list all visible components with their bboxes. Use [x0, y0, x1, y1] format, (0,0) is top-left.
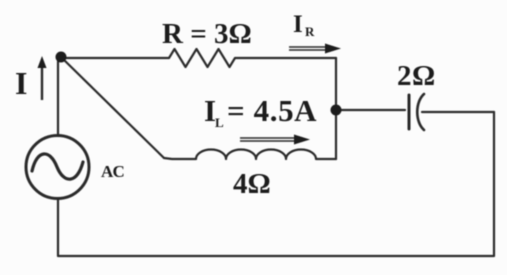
svg-text:4Ω: 4Ω — [233, 168, 271, 200]
svg-text:I: I — [293, 11, 303, 38]
svg-text:R = 3Ω: R = 3Ω — [162, 18, 252, 50]
svg-text:L: L — [215, 115, 224, 130]
svg-text:R: R — [305, 24, 315, 39]
svg-text:2Ω: 2Ω — [397, 60, 436, 92]
svg-text:I: I — [15, 65, 27, 101]
svg-text:= 4.5A: = 4.5A — [227, 93, 317, 128]
svg-text:AC: AC — [101, 162, 124, 181]
